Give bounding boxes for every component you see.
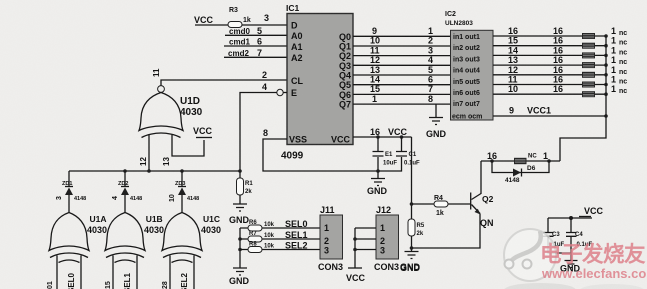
- wire 10k resistor common column: [239, 228, 241, 268]
- wire bus to D4 column: [124, 171, 126, 186]
- ground (emitter/R5): [405, 252, 419, 259]
- wire J12 pins common to VCC: [355, 228, 376, 250]
- gate U1C 4030: [162, 213, 221, 289]
- gate bubble on IC1 pin E (pin 4): [283, 92, 287, 94]
- diode D6 4148 (flyback): [492, 161, 549, 173]
- resistor RP5 element: [582, 72, 595, 78]
- wire emitter down and left: [412, 214, 481, 249]
- resistor RP3 element: [582, 52, 595, 58]
- resistor RP2 element: [582, 43, 595, 49]
- node nc labels column: [611, 26, 627, 95]
- node cap gnd junction: [376, 169, 380, 173]
- capacitor C1 0.1uF: [401, 137, 403, 151]
- node bus junctions: [123, 169, 127, 173]
- node junction dots on common column: [604, 34, 608, 118]
- wire VCC1 pin 9 row: [493, 115, 606, 117]
- watermark logo circle: [504, 229, 556, 281]
- resistor R5 2k (pull-down): [408, 219, 415, 236]
- wire R3 to IC1 pin D: [242, 24, 287, 26]
- wire relay row: [481, 160, 560, 162]
- wire U1D input 13 to VCC: [172, 135, 204, 156]
- gate U1B 4030: [105, 213, 164, 289]
- transistor Q2: [471, 161, 494, 228]
- resistor RP4 element: [582, 62, 595, 68]
- capacitor C4 0.1uF: [570, 218, 572, 232]
- wire VCC to R3: [195, 24, 228, 26]
- node junctions relay: [490, 159, 494, 163]
- connector J11 CON3: [318, 205, 343, 272]
- resistor RP7 element: [582, 91, 595, 97]
- diode D5 4148: [169, 181, 199, 202]
- gate U1D output bubble: [158, 86, 165, 93]
- wire E pin to pull-down column: [240, 93, 277, 172]
- wire base: [412, 203, 471, 205]
- resistor R8 10k (SEL2): [240, 249, 320, 251]
- wires out1..out7 with pin numbers and load resistors: [493, 26, 606, 116]
- node junction E-column on bus: [238, 169, 242, 173]
- ground (IC2 pin8 tie): [435, 104, 437, 117]
- relay coil NC: [514, 158, 527, 164]
- resistor R1 2k (E pull-down): [239, 171, 241, 178]
- node cap branch junctions: [376, 135, 380, 139]
- IC U2 (IC2 ULN2803 driver): [445, 11, 493, 121]
- gate U1A 4030: [47, 213, 107, 289]
- wire bus to D3 column: [68, 171, 70, 186]
- ground (IC1 decoupling): [377, 171, 379, 178]
- resistor R4 1k (base): [434, 201, 448, 207]
- diode D3 4148: [56, 181, 86, 202]
- wire VCC16 column down: [411, 137, 413, 219]
- resistor R6 10k (SEL0): [240, 227, 320, 229]
- watermark shadow blobs: [504, 283, 576, 289]
- gate U1D 4030 body: [139, 93, 203, 138]
- IC U1 (IC1 4099 latch): [281, 3, 353, 162]
- connector J12 CON3: [374, 205, 399, 272]
- ground (E pull-down): [233, 204, 247, 211]
- capacitor E1 10uF: [377, 137, 379, 151]
- capacitor C3 0.1uF: [547, 218, 549, 232]
- wire bus to D5 column: [181, 171, 183, 186]
- ground (10k common): [233, 268, 247, 275]
- wire U1D input 12 down to bus: [148, 135, 150, 171]
- resistor RP1 element: [582, 33, 595, 39]
- wire OR bus: [69, 170, 240, 172]
- ground (bottom right caps): [570, 253, 572, 260]
- power VCC (J12): [348, 267, 362, 269]
- resistor R7 10k (SEL1): [240, 238, 320, 240]
- wire Q0..Q7 rows IC1 to IC2, with pin numbers: [353, 26, 451, 104]
- diode D4 4148: [112, 181, 142, 202]
- wire common column down to relay: [560, 36, 606, 161]
- resistor R3: [228, 22, 242, 28]
- resistor RP6 element: [582, 82, 595, 88]
